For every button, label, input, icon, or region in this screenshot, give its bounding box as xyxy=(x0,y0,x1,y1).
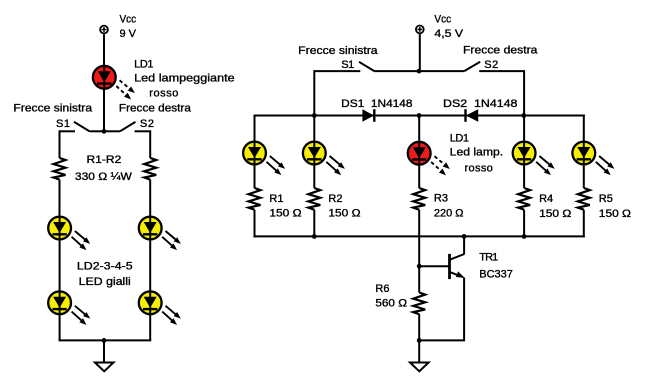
label TR1 BC337 xyxy=(479,251,513,280)
svg-text:LD2-3-4-5: LD2-3-4-5 xyxy=(77,261,133,273)
svg-text:150 Ω: 150 Ω xyxy=(599,208,631,220)
svg-text:R1: R1 xyxy=(269,193,283,205)
node rail junction middle xyxy=(417,113,422,118)
label S2 (right) xyxy=(484,59,498,71)
resistor R4 xyxy=(518,188,530,210)
wire R6 to bottom node xyxy=(418,314,420,340)
wire R2 to LD4 xyxy=(149,180,151,219)
wire base node to R6 xyxy=(418,266,420,292)
resistor R1 (left circuit) xyxy=(54,158,66,180)
wire to ground (left) xyxy=(103,340,105,362)
wire bottom rail (left circuit) xyxy=(59,339,152,341)
svg-text:DS2 1N4148: DS2 1N4148 xyxy=(443,98,517,110)
label Frecce sinistra (left) xyxy=(13,103,93,115)
svg-text:LED gialli: LED gialli xyxy=(79,276,131,288)
wire branch4 top xyxy=(523,116,525,144)
wire Vcc to LD1 xyxy=(103,34,105,67)
label R4 150 ohm xyxy=(539,193,571,220)
svg-text:rosso: rosso xyxy=(465,163,493,175)
label R3 220 ohm xyxy=(434,192,464,219)
svg-text:LD1: LD1 xyxy=(450,133,469,145)
svg-text:R1-R2: R1-R2 xyxy=(87,154,122,166)
LED yellow branch5 xyxy=(572,142,616,178)
label Vcc 9 V (left) xyxy=(120,14,137,40)
wire bottom rail (right circuit) xyxy=(254,235,585,237)
node bottom rail R4 xyxy=(522,234,527,239)
svg-text:Frecce sinistra: Frecce sinistra xyxy=(13,103,93,115)
svg-text:LD1: LD1 xyxy=(134,58,153,70)
label S2 (left) xyxy=(140,118,154,130)
wire base junction to TR1 base xyxy=(419,265,449,267)
node bottom rail R2 xyxy=(312,234,317,239)
wire right branch top xyxy=(149,130,151,158)
svg-text:R3: R3 xyxy=(434,192,448,204)
svg-text:150 Ω: 150 Ω xyxy=(539,208,571,220)
svg-text:560 Ω: 560 Ω xyxy=(375,298,407,310)
wire LD5 to bottom rail xyxy=(149,314,151,341)
svg-text:BC337: BC337 xyxy=(479,268,513,280)
node Vcc switch junction (right) xyxy=(417,69,422,74)
LED LD2 yellow xyxy=(48,217,92,253)
wire branch3 top xyxy=(418,116,420,144)
LED LD5 yellow xyxy=(139,291,183,327)
label LD2-3-4-5 LED gialli xyxy=(77,261,133,288)
wire LD4 to LD5 xyxy=(149,239,151,292)
power Vcc (left, 9 V) xyxy=(100,26,108,34)
svg-text:Led lampeggiante: Led lampeggiante xyxy=(134,73,235,85)
ground (left circuit) xyxy=(95,363,114,372)
wire LD3 to bottom rail xyxy=(59,314,61,341)
svg-text:4,5 V: 4,5 V xyxy=(434,28,463,40)
svg-text:Frecce sinistra: Frecce sinistra xyxy=(298,45,378,57)
LED yellow branch4 xyxy=(513,142,557,178)
label Frecce destra (left) xyxy=(119,103,192,115)
svg-text:330 Ω ¼W: 330 Ω ¼W xyxy=(75,171,133,183)
node base junction xyxy=(417,264,422,269)
wire branch3 LED to R3 xyxy=(418,164,420,188)
switch S1 (right) xyxy=(314,62,419,71)
svg-text:rosso: rosso xyxy=(149,87,178,99)
wire branch4 R4 to rail xyxy=(523,210,525,237)
LED LD1 red blinking (right) xyxy=(408,142,452,178)
label Frecce destra (right) xyxy=(463,45,538,57)
svg-text:Led lamp.: Led lamp. xyxy=(450,147,503,159)
LED yellow branch2 xyxy=(303,142,347,178)
label R1-R2 xyxy=(87,154,122,166)
ground (right circuit) xyxy=(410,363,429,372)
svg-text:R4: R4 xyxy=(539,193,553,205)
wire left branch top xyxy=(59,130,61,158)
svg-text:150 Ω: 150 Ω xyxy=(328,208,360,220)
wire R1 to LD2 xyxy=(59,180,61,219)
label Frecce sinistra (right) xyxy=(298,45,378,57)
svg-text:S2: S2 xyxy=(484,59,498,71)
resistor R3 xyxy=(413,188,425,210)
label 330 ohm quarter W xyxy=(75,171,133,183)
wire branch3 R3 through rail to base node xyxy=(418,210,420,267)
label R2 150 ohm xyxy=(328,193,360,220)
label R5 150 ohm xyxy=(599,193,631,220)
label R6 560 ohm xyxy=(375,283,407,310)
switch S2 (right) xyxy=(419,62,524,71)
wire collector to rail xyxy=(463,236,465,254)
label S1 (left) xyxy=(56,118,70,130)
node switch junction (left) xyxy=(102,129,107,134)
wire branch1 top xyxy=(254,115,256,144)
wire emitter down and to ground node xyxy=(419,278,464,341)
node bottom junction (left) xyxy=(102,338,107,343)
label DS1 1N4148 xyxy=(341,98,412,110)
diode DS1 xyxy=(362,109,374,122)
LED yellow branch1 xyxy=(243,142,287,178)
label Vcc 4,5 V (right) xyxy=(434,14,463,40)
resistor R2 (left circuit) xyxy=(144,158,156,180)
svg-text:220 Ω: 220 Ω xyxy=(434,208,464,220)
wire branch4 LED to R4 xyxy=(523,164,525,188)
svg-text:Vcc: Vcc xyxy=(120,14,137,26)
wire branch2 R2 to rail xyxy=(313,210,315,237)
LED LD3 yellow xyxy=(48,291,92,327)
svg-text:Vcc: Vcc xyxy=(434,14,451,26)
wire S1 post down to rail xyxy=(313,70,315,115)
svg-text:S2: S2 xyxy=(140,118,154,130)
transistor TR1 BC337 xyxy=(450,254,465,279)
svg-text:S1: S1 xyxy=(341,59,354,71)
wire top rail xyxy=(254,115,585,117)
wire Vcc down (right) xyxy=(419,34,421,71)
wire branch2 top xyxy=(313,116,315,144)
resistor R1 xyxy=(249,188,261,210)
wire LD1 to switch junction xyxy=(103,88,105,131)
svg-text:150 Ω: 150 Ω xyxy=(269,208,301,220)
node bottom rail collector xyxy=(462,234,467,239)
label LD1 Led lampeggiante rosso xyxy=(134,58,235,99)
svg-text:Frecce destra: Frecce destra xyxy=(463,45,538,57)
resistor R6 xyxy=(413,293,425,315)
svg-text:R2: R2 xyxy=(328,193,342,205)
svg-text:R5: R5 xyxy=(599,193,613,205)
svg-text:DS1 1N4148: DS1 1N4148 xyxy=(341,98,412,110)
wire branch1 LED to R1 xyxy=(254,164,256,188)
resistor R2 xyxy=(308,188,320,210)
resistor R5 xyxy=(578,188,590,210)
svg-text:Frecce destra: Frecce destra xyxy=(119,103,192,115)
wire branch5 R5 to rail xyxy=(583,210,585,238)
svg-text:R6: R6 xyxy=(375,283,389,295)
wire branch5 LED to R5 xyxy=(583,164,585,188)
wire LD2 to LD3 xyxy=(59,239,61,292)
wire branch1 R1 to rail xyxy=(254,210,256,238)
label S1 (right) xyxy=(341,59,354,71)
svg-text:9 V: 9 V xyxy=(120,28,137,40)
LED LD1 red blinking xyxy=(93,66,137,102)
switch S1 (left) xyxy=(60,122,105,132)
wire branch2 LED to R2 xyxy=(313,164,315,188)
node rail junction S2 xyxy=(521,113,526,118)
svg-text:TR1: TR1 xyxy=(479,251,498,263)
LED LD4 yellow xyxy=(139,217,183,253)
svg-text:S1: S1 xyxy=(56,118,70,130)
node emitter ground junction xyxy=(417,338,422,343)
power Vcc (right, 4,5 V) xyxy=(416,26,424,34)
diode DS2 xyxy=(466,109,479,122)
node rail junction S1 xyxy=(312,113,317,118)
switch S2 (left) xyxy=(104,122,150,132)
wire S2 post down to rail xyxy=(523,70,525,115)
wire to ground (right) xyxy=(418,340,420,362)
wire branch5 top xyxy=(583,115,585,144)
label LD1 Led lamp. rosso xyxy=(450,133,503,175)
label DS2 1N4148 xyxy=(443,98,517,110)
label R1 150 ohm xyxy=(269,193,301,220)
